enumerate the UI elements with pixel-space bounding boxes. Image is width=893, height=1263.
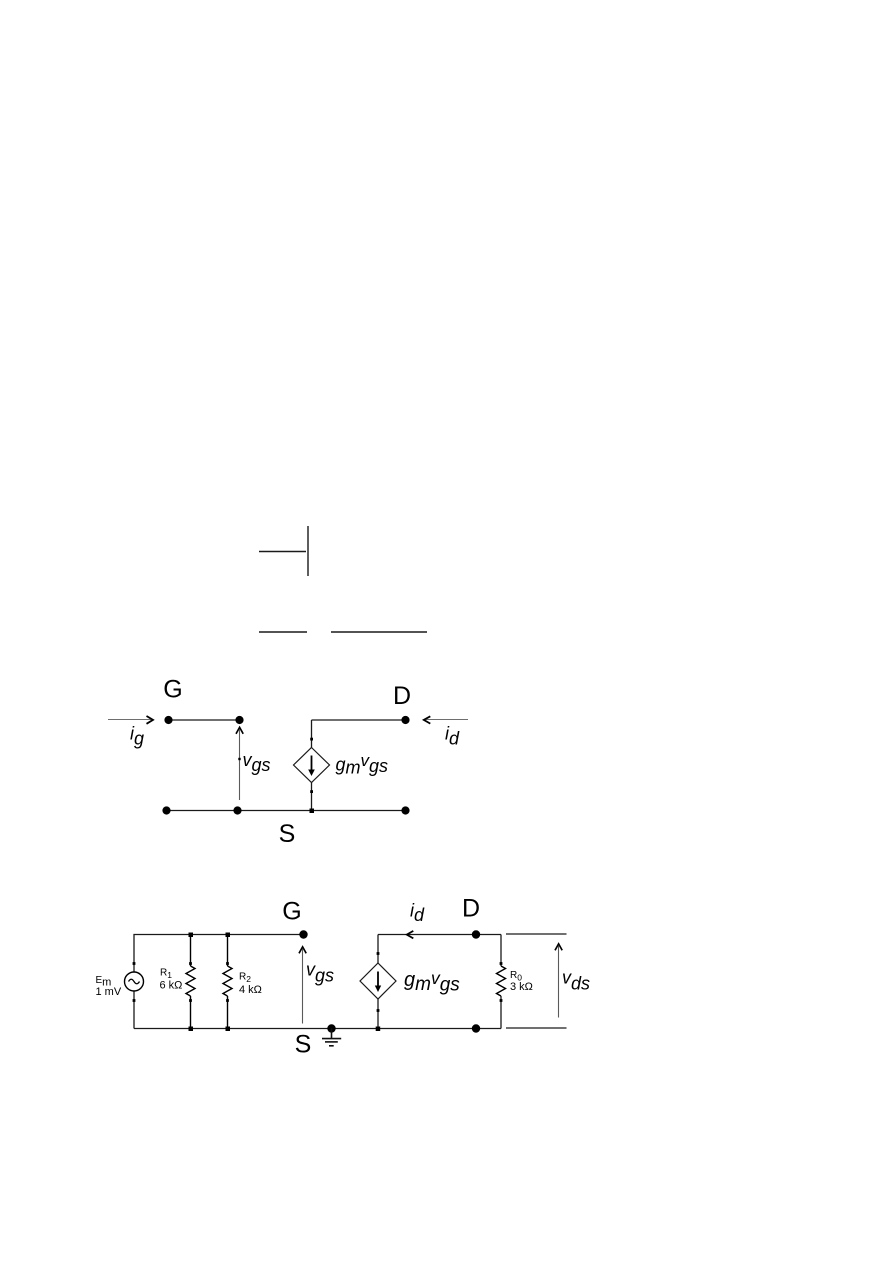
wire dep-source top lead <box>311 720 313 748</box>
svg-text:4 kΩ: 4 kΩ <box>239 984 262 996</box>
voltage arrow vgs <box>299 947 306 1024</box>
svg-text:G: G <box>163 676 182 704</box>
node dot S left <box>162 806 170 814</box>
svg-text:G: G <box>282 898 301 926</box>
resistor R1 <box>186 935 195 1029</box>
svg-text:R2: R2 <box>239 972 251 985</box>
wire top rail left <box>134 935 304 973</box>
junction square bottom rail at dep source <box>376 1027 381 1032</box>
wire lower-left segment <box>259 631 307 633</box>
gate vertical line <box>307 526 309 576</box>
wire right stub bottom <box>506 1027 567 1029</box>
node dot S mid <box>233 806 241 814</box>
svg-text:6 kΩ: 6 kΩ <box>160 980 183 992</box>
svg-text:S: S <box>279 820 296 848</box>
wire top rail right <box>378 934 501 936</box>
node dot D <box>472 930 480 938</box>
wire dep-source bottom lead <box>311 783 313 811</box>
fragment: partial MOSFET symbol <box>259 526 427 632</box>
resistor R0 <box>497 966 506 996</box>
wire dep-source top lead <box>377 935 379 964</box>
svg-text:D: D <box>462 895 480 923</box>
wire drain top rail <box>312 719 406 721</box>
node dot S right <box>401 806 409 814</box>
resistor R2 <box>223 935 232 1029</box>
node dot bottom right <box>472 1024 480 1032</box>
svg-text:R1: R1 <box>160 968 172 981</box>
wire bottom rail <box>134 1028 501 1030</box>
gate lead wire <box>259 551 306 553</box>
node dot G <box>299 930 307 938</box>
dependent source U2 diamond <box>360 952 396 1012</box>
node dot D <box>401 716 409 724</box>
current arrow ig <box>108 716 153 724</box>
wire source bottom lead <box>133 991 135 1029</box>
svg-text:3 kΩ: 3 kΩ <box>510 981 533 993</box>
svg-text:1 mV: 1 mV <box>96 986 122 998</box>
wire dep-source bottom lead <box>377 999 379 1029</box>
wire right stub top <box>506 933 567 935</box>
wire lower-right segment <box>331 631 427 633</box>
node dot G right <box>235 716 243 724</box>
voltage arrow vgs <box>236 727 243 800</box>
voltage arrow vds <box>555 944 562 1018</box>
wire gate top rail <box>169 719 240 721</box>
current arrow id <box>424 716 468 723</box>
node dot ground <box>327 1024 335 1032</box>
wire R0 bottom lead <box>500 996 502 1029</box>
ground symbol <box>322 1029 341 1046</box>
svg-text:S: S <box>295 1031 312 1059</box>
wire R0 top lead <box>500 935 502 967</box>
current arrow id on rail <box>407 931 414 939</box>
node dot G left <box>164 716 172 724</box>
junction square on bottom rail <box>310 809 315 814</box>
AC source Em <box>125 962 144 1002</box>
dependent source U1 diamond <box>294 738 330 793</box>
wire source bottom rail <box>167 810 406 812</box>
svg-text:D: D <box>393 682 411 710</box>
